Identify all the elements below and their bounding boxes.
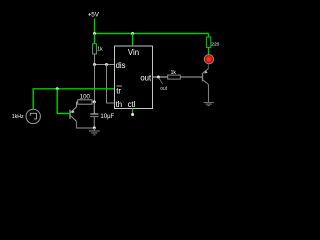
svg-text:220: 220 (211, 41, 219, 47)
wire out pin (153, 76, 168, 78)
ground (left) (89, 128, 100, 135)
resistor R4 220 (206, 37, 219, 47)
svg-text:dis: dis (116, 61, 126, 70)
pin label dis (116, 61, 126, 70)
resistor R1 1k (93, 44, 103, 54)
pin label ctl (128, 100, 136, 109)
wire branch to Q1 base (57, 89, 69, 114)
svg-text:Vin: Vin (128, 48, 139, 57)
pin label Vin (128, 48, 139, 57)
power +5V label (88, 12, 100, 19)
wire node B to cap (93, 102, 95, 114)
node junction A (93, 63, 96, 66)
svg-text:1kHz: 1kHz (12, 114, 24, 120)
node junction out (157, 76, 160, 79)
wire dis line (95, 64, 115, 66)
svg-text:th: th (116, 100, 123, 109)
capacitor C1 10uF (90, 114, 114, 120)
wire source to tr (33, 89, 114, 109)
wire rail to R4 (208, 34, 210, 38)
LED D1 (204, 55, 213, 64)
transistor Q1 (PNP) (70, 102, 77, 121)
resistor R3 1k (168, 70, 181, 79)
wire R1 bottom (94, 54, 96, 65)
pin ctl stub (131, 109, 134, 117)
IC U1 555 box (115, 46, 153, 109)
node junction ground-left (93, 126, 96, 129)
pin label out (140, 74, 152, 83)
net label out (159, 77, 168, 92)
wire Vin pin green (132, 34, 134, 47)
svg-text:1k: 1k (171, 70, 177, 76)
node junction th-branch (105, 63, 108, 66)
pin label th (116, 100, 123, 109)
wire Q2 collector to ground (208, 85, 210, 102)
wire R3 to Q2 base (180, 76, 202, 78)
node junction B (93, 100, 96, 103)
wire node A down to node B (94, 65, 96, 102)
svg-text:10µF: 10µF (100, 114, 114, 120)
node junction rail-Vin (131, 32, 134, 35)
wire R2 to node B (92, 101, 94, 103)
ground (right) (204, 103, 214, 106)
svg-text:1k: 1k (97, 47, 103, 53)
resistor R2 100 (78, 94, 92, 104)
svg-text:ctl: ctl (128, 100, 136, 109)
wire Q1 collector to ground node (77, 121, 95, 128)
wire cap to ground node (93, 117, 95, 129)
wire +5V stub (94, 19, 96, 34)
svg-text:tr: tr (116, 87, 121, 96)
wire rail to R1 (94, 34, 96, 44)
node junction tr-branch (56, 87, 59, 90)
wire +5V rail (95, 33, 209, 35)
wire R4 to LED (208, 47, 210, 55)
svg-text:out: out (140, 74, 152, 83)
svg-text:+5V: +5V (88, 12, 100, 19)
svg-text:out: out (160, 86, 168, 92)
svg-text:100: 100 (80, 94, 91, 100)
pin label tr (with overline) (116, 86, 122, 96)
transistor Q2 (PNP) (203, 69, 209, 85)
wire LED to Q2 emitter (208, 64, 210, 69)
wire Q1 emitter to R2 (77, 101, 78, 103)
wire th branch (107, 65, 115, 104)
source V1 1kHz square wave (12, 109, 41, 123)
node junction rail-R1 (93, 32, 96, 35)
